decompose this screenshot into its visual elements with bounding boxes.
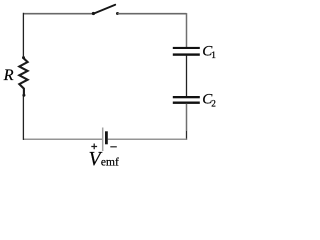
wire: left vertical upper (top-left corner to resistor) — [22, 13, 24, 58]
svg-text:2: 2 — [211, 100, 216, 110]
wire: bottom horizontal left segment (bottom-left corner to battery) — [23, 138, 103, 140]
wire: right vertical at bottom-right corner — [186, 131, 188, 140]
switch S lever arm (open) — [93, 5, 115, 14]
wire: top horizontal left segment (top-left corner to switch pivot) — [23, 13, 92, 15]
resistor R top junction dot — [22, 56, 25, 59]
switch S contact dot — [116, 12, 119, 15]
wire: right vertical middle (C1 to C2) — [186, 56, 188, 97]
wire: right vertical lower (C2 to bottom-right corner) — [186, 104, 188, 131]
svg-text:emf: emf — [101, 157, 119, 169]
battery Vemf short plate (negative, thick black) — [105, 131, 108, 144]
wire: top horizontal right segment (contact dot to top-right corner) — [118, 13, 187, 15]
capacitor C1 top plate — [173, 47, 200, 49]
capacitor C2 bottom plate — [173, 102, 200, 104]
battery Vemf long plate (positive, thin gray) — [102, 128, 104, 152]
svg-text:R: R — [3, 65, 14, 84]
battery minus sign — [110, 146, 117, 148]
svg-text:1: 1 — [211, 51, 216, 61]
resistor R bottom junction dot — [22, 94, 25, 97]
switch S pivot dot — [92, 12, 95, 15]
wire: bottom horizontal right segment (battery to bottom-right corner) — [108, 138, 187, 140]
battery plus sign — [91, 144, 97, 150]
capacitor C1 bottom plate — [173, 53, 200, 55]
capacitor C2 top plate — [173, 96, 200, 98]
wire: right vertical upper (top-right corner to C1) — [186, 13, 188, 47]
resistor R zigzag element — [19, 58, 27, 96]
wire: left vertical lower (resistor to bottom-left corner) — [22, 96, 24, 140]
